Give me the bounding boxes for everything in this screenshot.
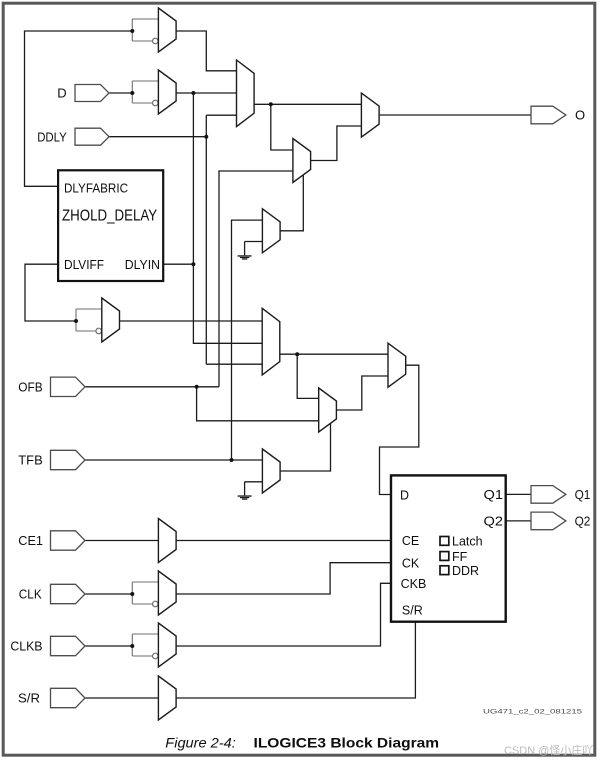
- junction node: DDLY branch: [204, 135, 208, 139]
- junction node: CLK input: [130, 592, 134, 596]
- svg-text:CE1: CE1: [18, 533, 43, 548]
- port CLKB: [51, 636, 86, 655]
- svg-text:S/R: S/R: [402, 603, 423, 617]
- mux U15: CLKB polarity mux: [158, 623, 176, 667]
- wire: D port to mux U2 input node: [109, 92, 132, 94]
- wire: CLKB port to mux U15 input node: [85, 645, 132, 647]
- wire: mux U6 output to mux U11 input 1: [280, 353, 388, 355]
- wire: FF Q1 to Q1 port: [506, 493, 531, 495]
- wire: mux U7 output to mux U9 input 2: [311, 126, 362, 161]
- svg-text:Q1: Q1: [575, 487, 591, 502]
- junction node: DLVIFF / mux U3 input: [74, 319, 78, 323]
- wire: FF Q2 to Q2 port: [506, 520, 531, 522]
- mux U5: 3-input data mux (to O path): [237, 60, 255, 127]
- wire: OFB port to riser: [85, 386, 220, 388]
- svg-text:O: O: [575, 108, 585, 123]
- wire: ZHOLD_DELAY DLYFABRIC to mux U1 input node: [25, 31, 133, 186]
- svg-text:DLVIFF: DLVIFF: [64, 257, 104, 272]
- port CLK: [51, 584, 86, 603]
- junction node: mux U5 output branch: [269, 102, 273, 106]
- wire: mux U15 output to FF CKB: [176, 583, 391, 646]
- inverter loop wires for mux U14: [132, 582, 158, 604]
- svg-text:TFB: TFB: [18, 453, 42, 468]
- svg-text:CLK: CLK: [19, 587, 42, 602]
- FF block: [391, 475, 506, 621]
- wire: OFB node down to mux U10 input 2: [197, 387, 319, 421]
- mux U11: FF D input mux: [388, 343, 406, 387]
- wire: S/R port to mux U16: [85, 697, 159, 699]
- inversion bubble of mux U15: [153, 653, 159, 659]
- port CE1: [51, 531, 86, 550]
- ZHOLD_DELAY block: [58, 170, 163, 281]
- svg-text:Figure 2-4:: Figure 2-4:: [165, 736, 236, 751]
- wire: mux U16 output to FF S/R bottom pin: [176, 622, 415, 698]
- wire: mux U11 output to FF D input: [380, 365, 419, 494]
- wire: ground stub to mux U8 input 2: [245, 242, 263, 256]
- wire: mux U1 output to mux U5 input 1: [176, 31, 236, 71]
- junction node: mux U6 output branch: [295, 352, 299, 356]
- wire: DDLY vertical riser to mux U5 input 3: [206, 115, 236, 364]
- mux U2: D input polarity mux: [158, 70, 176, 114]
- wire: TFB node up to mux U8 input 1: [232, 220, 263, 460]
- checkbox FF: [440, 552, 449, 561]
- svg-text:ZHOLD_DELAY: ZHOLD_DELAY: [62, 207, 157, 224]
- inverter loop wires for mux U3: [76, 309, 102, 331]
- junction node: D/DLYIN branch: [191, 91, 195, 95]
- junction node: D input: [130, 91, 134, 95]
- inverter loop wires for mux U15: [132, 634, 158, 656]
- inversion bubble of mux U14: [153, 601, 159, 607]
- svg-text:S/R: S/R: [18, 691, 40, 706]
- port O: [531, 106, 566, 124]
- inversion bubble of mux U3: [96, 328, 102, 334]
- svg-text:DLYFABRIC: DLYFABRIC: [64, 181, 128, 196]
- checkbox DDR: [440, 566, 449, 575]
- svg-text:DLYIN: DLYIN: [125, 257, 160, 272]
- port DDLY: [75, 128, 109, 145]
- wire: mux U3 output to mux U6 input 1: [120, 320, 263, 322]
- svg-text:CLKB: CLKB: [10, 639, 42, 654]
- svg-text:D: D: [400, 489, 409, 503]
- wire: mux U9 output to O port: [379, 114, 531, 116]
- wire: mux U14 output to FF CK: [176, 563, 391, 594]
- wire: mux U13 output to FF CE: [176, 540, 391, 542]
- svg-text:ILOGICE3 Block Diagram: ILOGICE3 Block Diagram: [254, 735, 440, 751]
- svg-text:CE: CE: [402, 534, 419, 548]
- svg-text:Latch: Latch: [452, 535, 483, 549]
- svg-text:Q2: Q2: [484, 515, 504, 529]
- wire: mux U10 output to mux U11 input 2: [336, 376, 388, 410]
- junction node: mux U1 input: [130, 29, 134, 33]
- svg-text:CSDN @怪小庄吖: CSDN @怪小庄吖: [504, 743, 593, 757]
- wire: mux U8 output to select of mux U7: [280, 175, 303, 231]
- wire: DDLY down to mux U6 input 3: [206, 363, 262, 365]
- wire: TFB port to mux U12 input 1: [85, 459, 263, 461]
- wire: CLK port to mux U14 input node: [85, 593, 132, 595]
- svg-text:CK: CK: [402, 556, 420, 570]
- mux U3: DLVIFF polarity mux: [102, 298, 120, 342]
- junction node: CLKB input: [130, 644, 134, 648]
- svg-text:CKB: CKB: [401, 577, 427, 591]
- svg-text:D: D: [57, 86, 66, 101]
- inverter loop wires for mux U2: [132, 81, 158, 103]
- inversion bubble of mux U1: [153, 38, 159, 44]
- mux U10: OFB select mux (lower): [319, 388, 337, 432]
- wire: ZHOLD_DELAY DLVIFF to mux U3 input node: [25, 264, 76, 321]
- mux U13: CE1 buffer mux: [158, 519, 176, 563]
- mux U8: TFB/gnd mux (upper): [262, 209, 280, 253]
- wire: ground stub to mux U12 input 2: [245, 482, 263, 496]
- wire: DDLY port to junction: [109, 136, 206, 138]
- port OFB: [51, 377, 86, 396]
- checkbox Latch: [440, 537, 449, 546]
- mux U12: TFB/gnd mux (lower): [262, 449, 280, 493]
- wire: DLYIN stub into block: [163, 263, 193, 265]
- wire: mux U5 output node down to mux U7 input 1: [271, 104, 293, 150]
- svg-text:FF: FF: [452, 550, 468, 564]
- port TFB: [51, 450, 86, 469]
- inversion bubble of mux U2: [153, 100, 159, 106]
- mux U14: CLK polarity mux: [158, 571, 176, 615]
- port Q2: [531, 512, 566, 530]
- svg-text:OFB: OFB: [18, 380, 42, 395]
- wire: mux U6 output node down to mux U10 input 1: [297, 354, 319, 398]
- svg-text:UG471_c2_02_081215: UG471_c2_02_081215: [483, 709, 583, 716]
- wire: DLYIN node down to mux U6 input 2: [193, 264, 262, 343]
- svg-text:DDR: DDR: [452, 564, 479, 578]
- wire: mux U5 output to mux U9 input 1: [254, 103, 361, 105]
- mux U7: OFB select mux (upper): [293, 139, 311, 183]
- svg-text:Q2: Q2: [575, 514, 591, 529]
- port Q1: [531, 486, 566, 504]
- wire: mux U2 output to mux U5 input 2: [176, 92, 236, 94]
- mux U9: final O mux: [361, 93, 379, 137]
- wire: CE1 port to mux U13: [85, 540, 159, 542]
- mux U6: 3-input data mux (to Q path): [262, 308, 280, 375]
- ground symbol at mux U12 input 2: [238, 495, 252, 499]
- wire: node at D output down to ZHOLD_DELAY DLYIN: [192, 93, 194, 264]
- junction node: DLYIN pin: [191, 262, 195, 266]
- svg-text:Q1: Q1: [484, 488, 504, 502]
- junction node: OFB branch: [195, 385, 199, 389]
- port S/R: [51, 688, 86, 707]
- svg-text:DDLY: DDLY: [37, 129, 67, 144]
- ground symbol at mux U8 input 2: [238, 255, 252, 259]
- junction node: TFB branch: [230, 458, 234, 462]
- wire: mux U12 output to select of mux U10: [280, 424, 330, 471]
- mux U16: S/R buffer mux: [158, 676, 176, 720]
- mux U1: D-path polarity mux (top): [158, 8, 176, 52]
- wire: OFB riser up to mux U7 input 2: [219, 171, 293, 387]
- port D: [75, 85, 109, 102]
- inverter loop wires (gray) for mux U1: [76, 19, 158, 656]
